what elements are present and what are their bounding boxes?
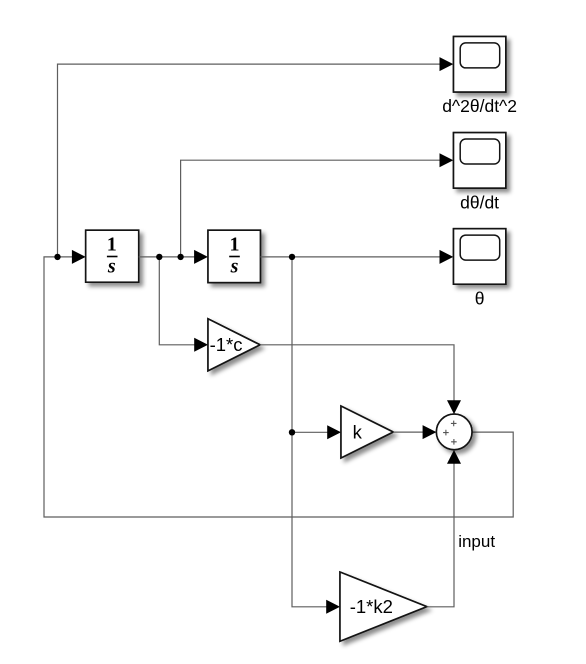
sum block (round, +++) bbox=[436, 414, 472, 450]
arrowhead into integrator 1 bbox=[72, 250, 86, 264]
arrowhead into scope1 bbox=[440, 57, 454, 71]
wire: branch up to dth/dt scope bbox=[181, 160, 441, 257]
arrowhead into gain k bbox=[327, 425, 341, 439]
plus sign (bottom port) bbox=[451, 439, 457, 445]
scope screen bbox=[460, 43, 500, 68]
integrator U2 (1/s) bbox=[208, 230, 260, 282]
scope screen bbox=[460, 235, 500, 260]
svg-text:input: input bbox=[458, 532, 495, 551]
wire: gain k output to sum left input bbox=[393, 431, 424, 433]
svg-text:k: k bbox=[353, 421, 363, 442]
scope block: theta bbox=[454, 229, 506, 285]
wire: gain -1*c output to sum top input bbox=[260, 345, 454, 402]
signal name label: input bbox=[458, 532, 495, 551]
arrowhead into sum (bottom) bbox=[447, 450, 461, 464]
svg-text:1: 1 bbox=[230, 233, 240, 255]
svg-text:s: s bbox=[230, 256, 239, 278]
plus sign (top port) bbox=[451, 421, 457, 427]
svg-text:1: 1 bbox=[107, 233, 117, 255]
gain k bbox=[341, 406, 393, 458]
wire: sum output feedback loop to integrator 1 input bbox=[44, 257, 513, 517]
arrowhead into gain -1*k2 bbox=[326, 600, 340, 614]
wire: long branch down to gain -1*k2 input bbox=[292, 257, 327, 607]
svg-text:s: s bbox=[107, 256, 116, 278]
arrowhead into integrator 2 bbox=[194, 250, 208, 264]
arrowhead into gain -1*c bbox=[194, 338, 208, 352]
scope block: d^2th/dt^2 bbox=[454, 37, 506, 93]
wire: branch to d^2th/dt^2 scope bbox=[58, 64, 442, 257]
label theta bbox=[475, 289, 485, 309]
plus sign (left port) bbox=[443, 430, 449, 436]
integrator U1 (1/s) bbox=[86, 230, 139, 282]
wire: branch down to gain -1*c input bbox=[159, 257, 196, 345]
arrowhead into scope3 bbox=[440, 250, 454, 264]
svg-text:θ: θ bbox=[475, 289, 485, 309]
svg-text:-1*k2: -1*k2 bbox=[350, 596, 393, 617]
junction node: position tap bbox=[289, 254, 295, 260]
junction node: acceleration tap bbox=[54, 254, 60, 260]
scope screen bbox=[460, 139, 500, 164]
wire: integrator1 output to integrator2 bbox=[139, 256, 196, 258]
scope block: dth/dt bbox=[454, 133, 506, 189]
svg-text:dθ/dt: dθ/dt bbox=[460, 192, 499, 212]
label d^2th/dt^2 bbox=[442, 96, 517, 116]
label dth/dt bbox=[460, 192, 499, 212]
junction node: velocity tap to damping gain bbox=[156, 254, 162, 260]
junction node: tap to gain k bbox=[289, 429, 295, 435]
gain -1*c bbox=[208, 319, 260, 371]
gain -1*k2 bbox=[340, 572, 427, 641]
wire: gain -1*k2 output to sum bottom input bbox=[427, 462, 454, 607]
arrowhead into sum (top) bbox=[447, 400, 461, 414]
arrowhead into scope2 bbox=[440, 153, 454, 167]
svg-text:d^2θ/dt^2: d^2θ/dt^2 bbox=[442, 96, 517, 116]
junction node: velocity tap to scope bbox=[177, 254, 183, 260]
svg-text:-1*c: -1*c bbox=[210, 334, 243, 355]
wire: integrator2 output to theta scope bbox=[260, 256, 441, 258]
arrowhead into sum (left) bbox=[423, 425, 437, 439]
wire: branch to gain k input bbox=[292, 431, 328, 433]
